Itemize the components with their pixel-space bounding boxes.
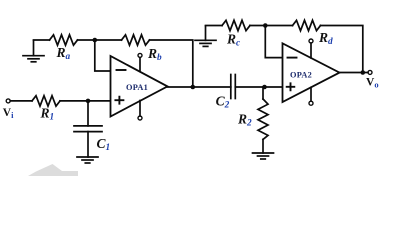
wire: Rb right then down to OPA1 output node bbox=[150, 40, 193, 87]
OPA2 minus sign bbox=[288, 57, 297, 59]
wire: node C down to OPA2 inverting input bbox=[265, 26, 282, 58]
svg-text:Ra: Ra bbox=[56, 45, 71, 62]
resistor Ra bbox=[50, 35, 78, 45]
OPA2 top power pin bbox=[309, 39, 313, 58]
ground G4 (below R2) bbox=[253, 153, 274, 159]
OPA1 plus sign bbox=[115, 97, 123, 104]
svg-text:Rb: Rb bbox=[147, 46, 162, 63]
OPA1 bottom power pin bbox=[138, 101, 142, 121]
svg-text:OPA1: OPA1 bbox=[126, 83, 148, 92]
svg-text:C2: C2 bbox=[216, 93, 230, 110]
junction node A bbox=[93, 38, 98, 43]
wire: G2 to Rc bbox=[206, 25, 223, 27]
svg-text:OPA2: OPA2 bbox=[290, 70, 312, 79]
svg-text:R2: R2 bbox=[237, 112, 252, 129]
resistor R2 bbox=[258, 99, 268, 139]
ground G3 (below C1) bbox=[77, 157, 98, 163]
input terminal Vi bbox=[6, 99, 10, 103]
capacitor C1 bbox=[74, 126, 102, 132]
wire: Vi to R1 bbox=[10, 100, 32, 102]
ground G1 (left of Ra) bbox=[23, 41, 44, 62]
svg-text:Vi: Vi bbox=[3, 107, 14, 120]
wire: node C to Rd bbox=[265, 25, 292, 27]
resistor Rc bbox=[222, 20, 250, 30]
ground G2 (left of Rc) bbox=[195, 26, 216, 46]
wire: R2 to ground G4 bbox=[262, 139, 264, 153]
svg-text:Rd: Rd bbox=[318, 30, 333, 47]
op-amp U2 OPA2 triangle bbox=[283, 43, 340, 102]
svg-text:C1: C1 bbox=[97, 136, 111, 153]
OPA2 bottom power pin bbox=[309, 87, 313, 105]
svg-text:Rc: Rc bbox=[226, 32, 240, 49]
resistor R1 bbox=[32, 96, 60, 106]
wire: Rd right then down to output node bbox=[321, 26, 363, 73]
wire: OPA2 output to Vo terminal bbox=[340, 72, 369, 74]
OPA1 top power pin bbox=[138, 53, 142, 71]
wire: C2 to OPA2 non-inverting input bbox=[235, 86, 282, 88]
junction node D bbox=[262, 85, 267, 90]
wire: G1 to Ra bbox=[34, 39, 50, 41]
svg-text:Vo: Vo bbox=[366, 77, 379, 90]
junction node OPA1 output bbox=[191, 85, 196, 90]
wire: node A to Rb bbox=[95, 39, 122, 41]
wire: node D down to R2 bbox=[262, 87, 264, 99]
OPA2 plus sign bbox=[287, 83, 295, 90]
junction node output bbox=[361, 70, 366, 75]
capacitor C2 bbox=[231, 75, 236, 99]
wire: OPA1 output to C2 bbox=[168, 86, 231, 88]
junction node C bbox=[263, 23, 268, 28]
junction node B (R1/C1) bbox=[86, 99, 91, 104]
wire: node B down to C1 bbox=[87, 101, 89, 126]
wire: C1 to ground G3 bbox=[87, 132, 89, 157]
wire: R1 to node B to OPA1 non-inverting input bbox=[60, 100, 111, 102]
resistor Rb bbox=[122, 35, 150, 45]
output terminal Vo bbox=[368, 70, 372, 74]
op-amp U1 OPA1 triangle bbox=[111, 56, 168, 117]
wire: node A down to OPA1 inverting input bbox=[95, 40, 111, 71]
wire: Ra to node A bbox=[78, 39, 95, 41]
svg-text:R1: R1 bbox=[40, 106, 55, 123]
wire: Rc to node C bbox=[250, 25, 265, 27]
OPA1 minus sign bbox=[117, 69, 126, 71]
resistor Rd bbox=[293, 20, 321, 30]
watermark bbox=[28, 164, 78, 176]
